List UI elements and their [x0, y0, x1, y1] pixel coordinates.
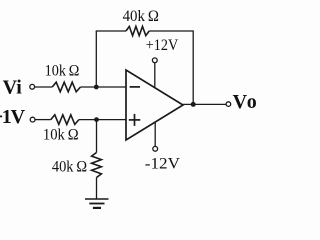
node A junction dot: [94, 85, 99, 90]
terminal +12V open circle: [152, 58, 157, 63]
wire: +12V supply pin: [154, 63, 156, 88]
node B junction dot: [94, 117, 99, 122]
wire: Vi terminal to R1: [35, 86, 52, 88]
resistor R3 10k ohm (lower input): [51, 115, 79, 125]
wire: -12V supply pin: [154, 122, 156, 146]
svg-text:40k Ω: 40k Ω: [123, 8, 160, 25]
wire: R3 to non-inverting input: [79, 119, 127, 121]
svg-text:-12V: -12V: [145, 155, 181, 172]
terminal -12V open circle: [153, 146, 158, 151]
svg-text:40k Ω: 40k Ω: [52, 158, 87, 175]
label -1V (minus clipped at left edge): [0, 115, 2, 117]
wire: top rail right segment: [149, 30, 193, 32]
terminal Vo open circle: [226, 102, 231, 107]
wire: R1 to inverting input: [81, 86, 127, 88]
svg-text:10k Ω: 10k Ω: [43, 127, 79, 144]
ground symbol: [85, 199, 109, 208]
terminal Vi open circle: [30, 84, 35, 89]
wire: node B down to R4: [96, 120, 98, 153]
resistor R2 40k ohm (feedback): [126, 26, 149, 35]
op-amp U1 triangle: [126, 70, 183, 140]
wire: feedback right vertical down to output node: [192, 30, 194, 104]
svg-text:1V: 1V: [2, 106, 26, 128]
svg-text:10k Ω: 10k Ω: [45, 63, 80, 80]
node output junction dot: [191, 102, 196, 107]
resistor R4 40k ohm (to ground, vertical): [92, 153, 102, 178]
wire: top rail left segment to feedback resistor: [96, 30, 126, 32]
wire: R4 to ground: [96, 178, 98, 200]
op-amp non-inverting input plus sign: [129, 114, 141, 126]
svg-text:+12V: +12V: [146, 37, 179, 54]
terminal -1V open circle: [30, 117, 35, 122]
wire: feedback left vertical from node A up to top rail: [95, 31, 97, 87]
resistor R1 10k ohm (Vi input): [52, 82, 80, 92]
op-amp inverting input minus sign: [130, 86, 140, 88]
wire: -1V terminal to R3: [35, 119, 51, 121]
svg-text:Vi: Vi: [3, 77, 23, 99]
svg-text:Vo: Vo: [233, 91, 259, 113]
wire: output from op-amp to Vo terminal: [183, 103, 226, 105]
